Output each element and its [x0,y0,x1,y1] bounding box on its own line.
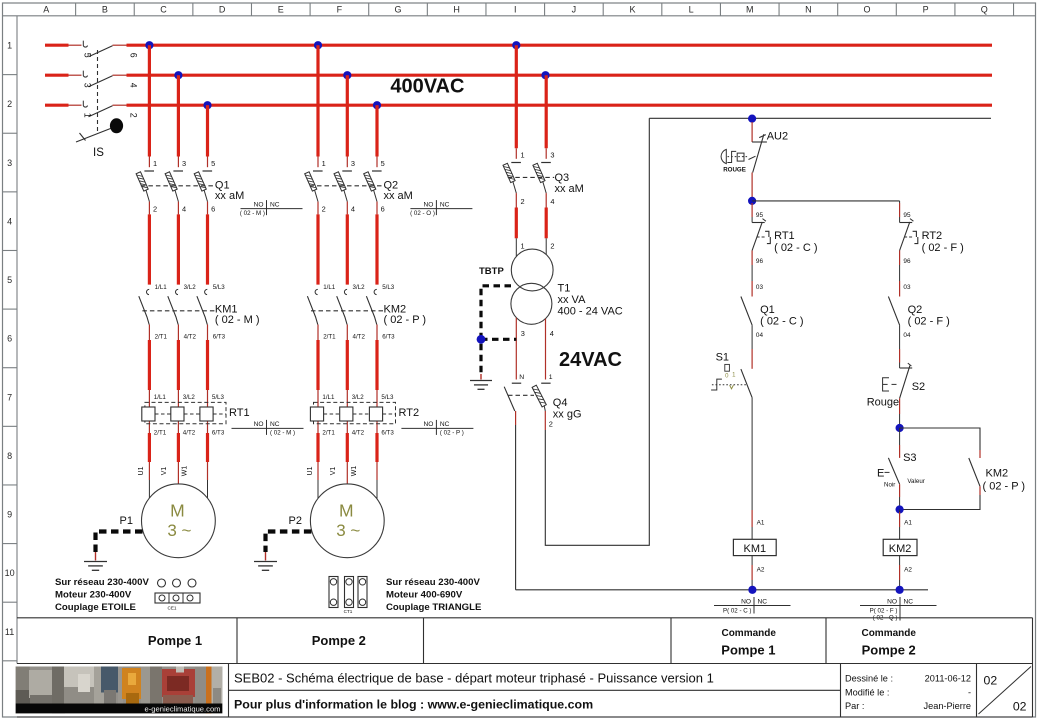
svg-text:A1: A1 [904,520,912,527]
svg-text:Commande: Commande [721,628,776,639]
svg-text:xx aM: xx aM [555,183,584,195]
svg-text:2/T1: 2/T1 [323,334,336,341]
svg-text:03: 03 [903,284,911,291]
svg-text:2: 2 [322,204,326,213]
svg-text:Pour plus d'information le blo: Pour plus d'information le blog : www.e-… [234,698,593,712]
svg-text:96: 96 [756,258,764,265]
svg-text:02: 02 [984,674,998,688]
svg-text:V1: V1 [330,467,337,476]
svg-text:3: 3 [7,158,12,168]
svg-text:1: 1 [549,374,553,381]
svg-text:Jean-Pierre: Jean-Pierre [924,701,972,711]
svg-text:U1: U1 [307,466,314,475]
svg-text:3/L2: 3/L2 [183,394,196,401]
svg-text:P: P [923,4,929,14]
svg-text:1: 1 [521,241,525,250]
svg-text:L: L [689,4,694,14]
svg-text:T1: T1 [558,282,571,294]
svg-text:P( 02 - C ): P( 02 - C ) [723,608,752,615]
svg-text:4: 4 [129,83,139,88]
svg-text:6/T3: 6/T3 [212,430,225,437]
svg-text:Rouge: Rouge [867,397,899,409]
svg-text:Sur réseau 230-400V: Sur réseau 230-400V [55,577,149,588]
svg-text:04: 04 [756,332,764,339]
svg-text:4: 4 [550,329,554,338]
svg-text:Couplage TRIANGLE: Couplage TRIANGLE [386,602,482,613]
svg-text:I: I [514,4,517,14]
svg-text:6/T3: 6/T3 [381,430,394,437]
svg-text:1: 1 [521,150,525,159]
svg-text:P( 02 - F ): P( 02 - F ) [870,608,898,615]
svg-text:96: 96 [903,258,911,265]
svg-text:( 02 - M ): ( 02 - M ) [240,210,265,217]
svg-text:Dessiné le :: Dessiné le : [845,674,893,684]
svg-text:NC: NC [440,201,450,208]
svg-text:NC: NC [904,598,914,605]
svg-text:CE1: CE1 [168,606,177,611]
svg-text:D: D [219,4,226,14]
svg-text:M: M [746,4,754,14]
svg-text:9: 9 [7,510,12,520]
svg-text:E: E [278,4,284,14]
svg-text:V1: V1 [161,467,168,476]
svg-text:4: 4 [351,204,355,213]
svg-text:RT1: RT1 [774,230,795,242]
svg-text:A: A [43,4,49,14]
svg-text:O: O [863,4,870,14]
svg-text:2: 2 [129,113,139,118]
svg-text:xx VA: xx VA [558,294,587,306]
svg-text:2011-06-12: 2011-06-12 [925,674,971,684]
svg-text:A2: A2 [904,567,912,574]
svg-text:1: 1 [153,159,157,168]
svg-text:AU2: AU2 [767,130,788,142]
svg-text:400VAC: 400VAC [390,76,464,98]
svg-text:3/L2: 3/L2 [184,284,197,291]
svg-text:( 02 - M ): ( 02 - M ) [215,314,260,326]
svg-text:A2: A2 [757,567,765,574]
svg-text:J: J [572,4,577,14]
svg-text:NC: NC [440,421,450,428]
svg-text:KM2: KM2 [986,467,1009,479]
svg-text:5: 5 [7,275,12,285]
svg-text:IS: IS [93,147,104,159]
svg-text:Valeur: Valeur [907,478,924,485]
svg-text:N: N [805,4,812,14]
svg-text:( 02 - F ): ( 02 - F ) [908,315,950,327]
svg-text:Couplage ETOILE: Couplage ETOILE [55,602,136,613]
svg-text:2: 2 [549,419,553,428]
svg-text:Modifié le :: Modifié le : [845,687,889,697]
svg-text:6: 6 [381,204,385,213]
svg-text:B: B [102,4,108,14]
svg-text:( 02 - P ): ( 02 - P ) [384,314,427,326]
svg-text:NC: NC [270,421,280,428]
svg-text:Pompe 2: Pompe 2 [862,643,916,658]
svg-text:ROUGE: ROUGE [723,167,746,174]
svg-text:3: 3 [83,83,93,88]
svg-text:2: 2 [521,197,525,206]
svg-text:E: E [877,467,884,479]
svg-text:M: M [339,501,354,521]
svg-text:3: 3 [521,329,525,338]
svg-text:RT2: RT2 [399,407,420,419]
svg-text:( 02 - F ): ( 02 - F ) [922,242,964,254]
svg-text:5/L3: 5/L3 [213,284,226,291]
svg-text:24VAC: 24VAC [559,349,622,371]
svg-text:6: 6 [211,204,215,213]
svg-text:1: 1 [322,159,326,168]
svg-text:NO: NO [254,201,264,208]
svg-text:4: 4 [550,197,554,206]
svg-text:4: 4 [182,204,186,213]
svg-text:3/L2: 3/L2 [352,394,365,401]
svg-text:Par :: Par : [845,701,864,711]
svg-text:U1: U1 [138,466,145,475]
svg-text:3: 3 [550,150,554,159]
svg-text:Q4: Q4 [553,397,568,409]
svg-text:6: 6 [129,53,139,58]
svg-text:W1: W1 [351,466,358,477]
svg-text:( 02 - O ): ( 02 - O ) [410,210,435,217]
svg-text:03: 03 [756,284,764,291]
svg-text:Noir: Noir [884,482,895,489]
svg-text:8: 8 [7,451,12,461]
svg-text:2: 2 [7,99,12,109]
svg-text:10: 10 [5,568,15,578]
svg-text:2/T1: 2/T1 [322,430,335,437]
svg-text:K: K [630,4,636,14]
svg-text:3: 3 [351,159,355,168]
svg-text:A1: A1 [757,520,765,527]
svg-text:M: M [170,501,185,521]
svg-text:S1: S1 [716,352,729,364]
svg-text:4/T2: 4/T2 [353,334,366,341]
svg-text:04: 04 [903,332,911,339]
svg-text:4/T2: 4/T2 [184,334,197,341]
svg-text:1/L1: 1/L1 [154,394,167,401]
svg-text:1: 1 [7,41,12,51]
svg-text:2/T1: 2/T1 [154,430,167,437]
svg-text:95: 95 [903,212,911,219]
svg-text:C: C [160,4,167,14]
svg-text:5: 5 [381,159,385,168]
svg-text:RT2: RT2 [922,230,943,242]
svg-text:( 02 - P ): ( 02 - P ) [440,430,464,437]
svg-text:-: - [968,687,971,697]
svg-text:2: 2 [550,241,554,250]
svg-text:P1: P1 [120,515,133,527]
svg-text:3/L2: 3/L2 [353,284,366,291]
svg-text:02: 02 [1013,700,1027,714]
svg-text:NC: NC [758,598,768,605]
svg-text:5: 5 [211,159,215,168]
svg-text:KM2: KM2 [889,543,912,555]
svg-text:NO: NO [254,421,264,428]
svg-text:NO: NO [424,421,434,428]
svg-text:Pompe 1: Pompe 1 [148,633,202,648]
svg-text:4/T2: 4/T2 [183,430,196,437]
svg-text:G: G [395,4,402,14]
svg-text:( 02 - M ): ( 02 - M ) [270,430,295,437]
svg-text:Sur réseau 230-400V: Sur réseau 230-400V [386,577,480,588]
svg-text:6: 6 [7,334,12,344]
svg-text:( 02 - P ): ( 02 - P ) [983,481,1026,493]
svg-text:11: 11 [5,627,14,637]
svg-text:Moteur 400-690V: Moteur 400-690V [386,590,463,601]
svg-text:6/T3: 6/T3 [382,334,395,341]
svg-text:CT1: CT1 [344,609,353,614]
svg-text:1/L1: 1/L1 [322,394,335,401]
svg-text:1/L1: 1/L1 [323,284,336,291]
svg-text:5/L3: 5/L3 [212,394,225,401]
svg-text:5/L3: 5/L3 [382,284,395,291]
svg-text:Moteur 230-400V: Moteur 230-400V [55,590,132,601]
svg-text:2: 2 [153,204,157,213]
svg-text:TBTP: TBTP [479,266,504,277]
svg-text:xx aM: xx aM [215,190,244,202]
svg-text:3 ~: 3 ~ [336,521,360,540]
svg-text:400 - 24 VAC: 400 - 24 VAC [558,305,623,317]
svg-text:1: 1 [83,113,93,118]
svg-text:xx aM: xx aM [384,190,413,202]
svg-text:RT1: RT1 [229,407,250,419]
svg-text:e-genieclimatique.com: e-genieclimatique.com [145,705,221,714]
svg-text:Commande: Commande [861,628,916,639]
svg-text:S2: S2 [912,381,925,393]
svg-text:5: 5 [83,53,93,58]
svg-text:P2: P2 [289,515,302,527]
svg-text:NO: NO [424,201,434,208]
svg-text:F: F [337,4,343,14]
svg-text:4/T2: 4/T2 [352,430,365,437]
svg-text:2/T1: 2/T1 [155,334,168,341]
svg-text:Q1: Q1 [760,304,775,316]
svg-text:3: 3 [182,159,186,168]
svg-text:Pompe 2: Pompe 2 [312,633,366,648]
svg-text:H: H [453,4,460,14]
svg-text:( 02 - C ): ( 02 - C ) [760,315,803,327]
svg-text:S3: S3 [903,452,916,464]
svg-text:Q2: Q2 [908,304,923,316]
svg-text:6/T3: 6/T3 [213,334,226,341]
svg-text:Q: Q [981,4,988,14]
svg-text:4: 4 [7,216,12,226]
svg-text:NO: NO [741,598,751,605]
svg-text:Pompe 1: Pompe 1 [721,643,775,658]
svg-text:( 02 - C ): ( 02 - C ) [774,242,817,254]
svg-text:W1: W1 [182,466,189,477]
svg-text:SEB02 - Schéma électrique de b: SEB02 - Schéma électrique de base - dépa… [234,671,714,686]
svg-text:xx gG: xx gG [553,408,582,420]
svg-text:3 ~: 3 ~ [167,521,191,540]
svg-text:95: 95 [756,212,764,219]
svg-text:KM1: KM1 [743,543,766,555]
svg-text:NC: NC [270,201,280,208]
svg-text:7: 7 [7,392,12,402]
svg-text:5/L3: 5/L3 [381,394,394,401]
svg-text:1/L1: 1/L1 [155,284,168,291]
svg-text:N: N [519,374,524,381]
svg-text:NO: NO [887,598,897,605]
